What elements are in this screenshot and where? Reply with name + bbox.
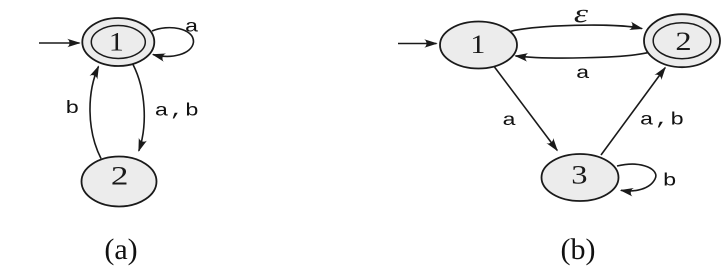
svg-text:(a): (a) bbox=[104, 233, 137, 266]
wire: edge 2 to 1 labelled a bbox=[516, 52, 650, 58]
svg-text:1: 1 bbox=[470, 31, 485, 60]
svg-text:3: 3 bbox=[571, 161, 587, 189]
wire: edge 3 to 2 labelled a,b bbox=[601, 68, 665, 155]
svg-text:ε: ε bbox=[574, 0, 589, 28]
state 3 (automaton b) bbox=[542, 154, 619, 201]
svg-text:a: a bbox=[185, 18, 199, 38]
svg-text:1: 1 bbox=[109, 28, 124, 57]
svg-text:a: a bbox=[502, 112, 516, 132]
svg-text:a: a bbox=[576, 65, 590, 85]
svg-text:a,b: a,b bbox=[640, 111, 686, 131]
svg-text:a,b: a,b bbox=[154, 102, 200, 122]
state 1 (automaton b) bbox=[440, 22, 517, 69]
state 2 (accepting, automaton b) bbox=[644, 14, 720, 67]
wire: edge 2 to 1 labelled b bbox=[90, 67, 101, 159]
svg-text:2: 2 bbox=[111, 161, 129, 190]
state 2 (automaton a) bbox=[82, 157, 157, 207]
wire: self-loop on state 3 labelled b bbox=[617, 164, 656, 191]
wire: edge 1 to 2 labelled epsilon bbox=[510, 25, 642, 31]
wire: edge 1 to 2 labelled a,b bbox=[133, 65, 144, 151]
svg-text:2: 2 bbox=[675, 28, 691, 56]
wire: start arrow into state 1 (right) bbox=[398, 43, 437, 45]
svg-text:(b): (b) bbox=[561, 233, 596, 266]
svg-text:b: b bbox=[663, 172, 677, 192]
wire: start arrow into state 1 (left) bbox=[39, 42, 80, 44]
state 1 (accepting, automaton a) bbox=[82, 18, 154, 66]
wire: edge 1 to 3 labelled a bbox=[495, 67, 558, 150]
svg-text:b: b bbox=[65, 99, 79, 119]
wire: self-loop on state 1 labelled a bbox=[152, 28, 194, 57]
